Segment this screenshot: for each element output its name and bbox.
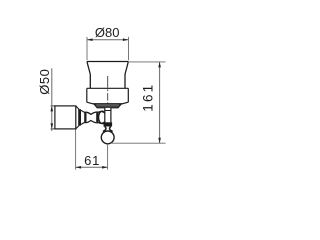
collar: [104, 122, 113, 126]
cup left profile: [87, 62, 90, 89]
baluster top: [87, 112, 97, 114]
holder ring top: [87, 87, 129, 89]
lip highlight: [96, 104, 119, 106]
bell top slant: [76, 106, 80, 110]
arrowhead Ø80 right: [123, 38, 129, 41]
holder ring left side: [86, 88, 88, 102]
baluster bottom: [87, 121, 97, 123]
knob bulb at arm end: [99, 111, 106, 124]
post left side: [104, 108, 106, 123]
dimension line 61: [76, 166, 108, 168]
dimension line Ø50: [51, 68, 53, 131]
bell base edge: [78, 109, 81, 125]
neck right: [110, 127, 113, 132]
extension line Ø80 right: [128, 37, 130, 60]
arrowhead 61 left: [76, 166, 82, 169]
plate extension tick top: [51, 105, 56, 107]
ring bottom left slant: [87, 102, 94, 104]
knob top arc: [99, 111, 105, 112]
centerline: [107, 76, 109, 104]
step ring: [84, 112, 86, 124]
post right side: [110, 108, 112, 123]
extension line 61 left: [75, 130, 77, 170]
bell bottom slant: [76, 125, 80, 129]
post body: [105, 108, 111, 123]
extension line Ø80 left: [86, 37, 88, 60]
wall plate: [55, 106, 76, 129]
post top step: [104, 110, 111, 112]
cup right profile: [125, 62, 128, 89]
knob bottom arc: [99, 122, 105, 123]
ring bottom right slant: [121, 102, 128, 104]
arrowhead 161 up: [158, 62, 161, 68]
arrowhead Ø80 left: [87, 38, 93, 41]
arrowhead Ø50 up: [51, 106, 54, 112]
dimension line 161: [159, 62, 161, 143]
ball finial: [101, 131, 114, 144]
arrowhead 161 down: [158, 138, 161, 144]
extension line 161 bottom: [111, 142, 166, 144]
neck left: [103, 127, 106, 132]
cone top slant: [81, 110, 85, 112]
plate extension tick bottom: [51, 128, 56, 130]
svg-text:Ø80: Ø80: [95, 25, 120, 40]
svg-text:61: 61: [84, 153, 100, 168]
dimension line Ø80: [87, 39, 129, 41]
cone bottom slant: [81, 122, 85, 124]
extension line 161 top: [129, 61, 166, 63]
svg-text:Ø50: Ø50: [37, 69, 52, 95]
arrowhead Ø50 down: [51, 123, 54, 128]
ring lip flange line: [93, 103, 122, 105]
svg-text:161: 161: [141, 83, 156, 112]
arrowhead 61 right: [102, 166, 108, 169]
holder ring right side: [127, 88, 129, 102]
disc ring: [96, 111, 98, 123]
extension line 61 right: [107, 144, 109, 170]
ring bottom lip band: [94, 104, 121, 108]
cup rim: [87, 61, 128, 63]
